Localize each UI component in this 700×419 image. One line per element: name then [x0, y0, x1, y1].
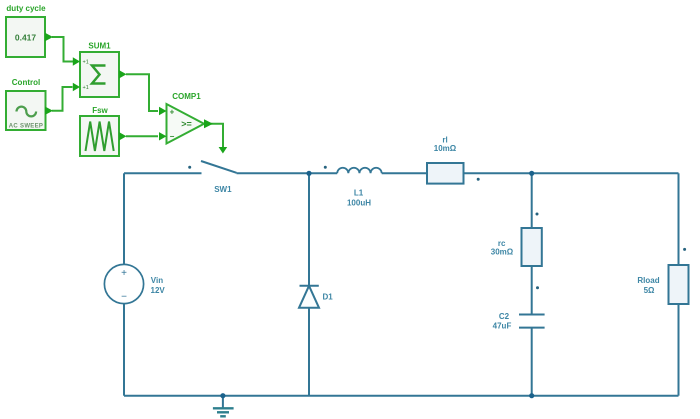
svg-text:0.417: 0.417: [15, 32, 37, 42]
svg-text:5Ω: 5Ω: [644, 286, 655, 295]
svg-text:−: −: [170, 132, 175, 141]
svg-text:SUM1: SUM1: [88, 42, 111, 51]
svg-text:30mΩ: 30mΩ: [491, 248, 514, 257]
svg-text:+1: +1: [83, 85, 89, 91]
svg-text:>=: >=: [181, 119, 192, 129]
svg-text:Fsw: Fsw: [92, 106, 108, 115]
svg-text:12V: 12V: [151, 286, 166, 295]
svg-text:C2: C2: [499, 312, 510, 321]
svg-text:−: −: [121, 292, 127, 303]
svg-text:10mΩ: 10mΩ: [434, 144, 457, 153]
svg-text:SW1: SW1: [214, 185, 232, 194]
svg-text:+: +: [170, 108, 175, 117]
svg-text:AC SWEEP: AC SWEEP: [9, 123, 43, 129]
svg-text:L1: L1: [354, 189, 364, 198]
svg-text:47uF: 47uF: [493, 321, 512, 330]
svg-text:COMP1: COMP1: [172, 92, 201, 101]
svg-text:Rload: Rload: [637, 276, 659, 285]
svg-text:Control: Control: [12, 78, 40, 87]
svg-text:+1: +1: [83, 60, 89, 66]
svg-text:D1: D1: [323, 292, 334, 301]
svg-text:100uH: 100uH: [347, 199, 371, 208]
svg-text:duty cycle: duty cycle: [6, 4, 46, 13]
svg-text:Vin: Vin: [151, 276, 163, 285]
svg-text:rl: rl: [442, 135, 447, 144]
svg-text:+: +: [121, 268, 127, 279]
